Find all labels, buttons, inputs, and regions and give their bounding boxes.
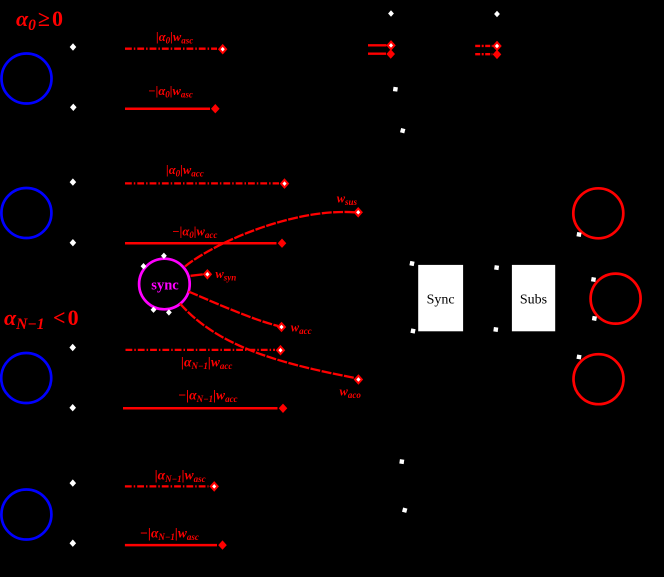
blue circle group 3 xyxy=(1,353,51,403)
middle column white squares xyxy=(393,87,398,92)
blue circle group 4 xyxy=(1,490,51,540)
sync neuron circle xyxy=(139,259,190,310)
svg-text:α0≥0: α0≥0 xyxy=(16,6,63,34)
red circle right 1 xyxy=(573,188,623,238)
svg-text:Sync: Sync xyxy=(427,293,455,308)
white squares near boxes xyxy=(409,261,414,266)
solid arrow 4 xyxy=(125,242,277,245)
top middle white diamond 1 xyxy=(388,10,394,16)
short solid arrow pair (top middle) xyxy=(368,44,387,46)
curve C to w_acc xyxy=(189,292,279,327)
svg-text:sync: sync xyxy=(151,278,179,294)
red circle right 3 xyxy=(574,354,624,404)
dash-dot arrow 3 xyxy=(125,182,279,184)
solid arrow 6 xyxy=(123,407,278,410)
Subs box xyxy=(512,265,555,331)
solid arrow 8 xyxy=(125,544,217,547)
top middle white diamond 2 xyxy=(494,11,500,17)
dash-dot arrow 1 xyxy=(125,48,217,50)
red circle right 2 xyxy=(591,274,641,324)
curve A to w_sus xyxy=(185,212,355,267)
curve D to w_aco xyxy=(180,304,355,378)
short dashed arrow pair (top middle right) xyxy=(475,45,492,47)
white diamonds on sync circle xyxy=(161,253,167,259)
short arrow B to w_syn xyxy=(191,274,203,275)
blue circle group 2 xyxy=(1,188,51,238)
blue circle group 1 xyxy=(2,54,52,104)
white diamond arrowheads, left column xyxy=(70,43,77,50)
Sync box xyxy=(418,265,463,331)
dash-dot arrow 5 xyxy=(126,349,276,351)
solid arrow 2 xyxy=(125,107,210,110)
svg-text:Subs: Subs xyxy=(520,293,547,308)
dash-dot arrow 7 xyxy=(125,485,209,487)
